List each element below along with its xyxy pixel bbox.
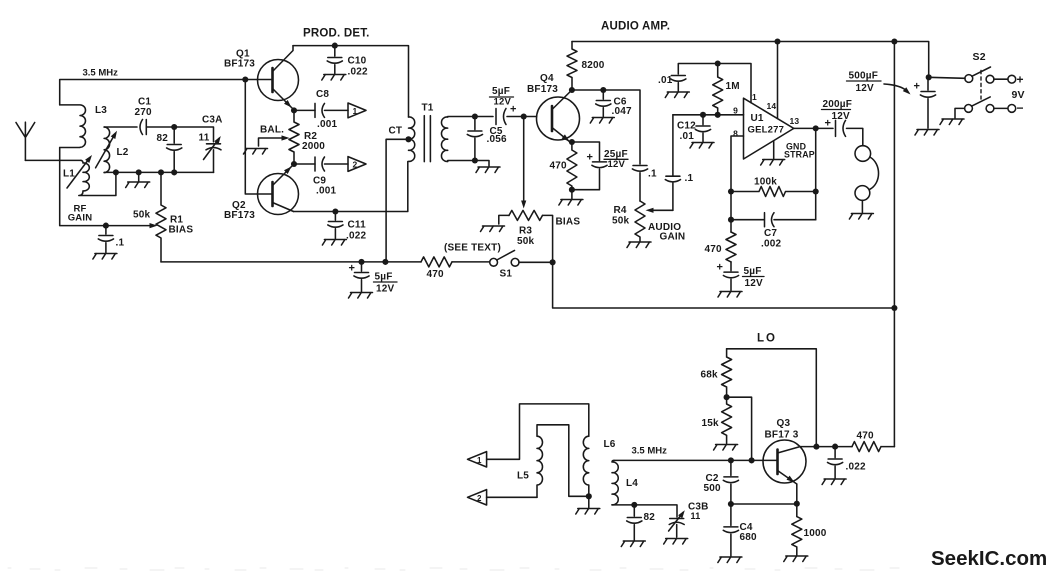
svg-text:5µF: 5µF — [492, 86, 510, 97]
capacitor C4 — [718, 504, 742, 563]
wire T1 secondary bottom — [448, 161, 475, 162]
output arrow 1 (LO) — [468, 452, 487, 467]
svg-text:9V: 9V — [1012, 89, 1025, 101]
node C2 bottom / emitter rail — [728, 501, 734, 507]
wire 3.5MHz node to Q1 base — [60, 80, 273, 105]
watermark SeekIC.com — [931, 547, 1047, 570]
wiper wire of R2 — [259, 138, 286, 146]
fraction bar (5uF 12V) — [490, 96, 514, 98]
wire tank bottom rail — [104, 171, 213, 173]
wire S2 lower pole to ground — [955, 108, 965, 118]
label R4 — [614, 205, 627, 216]
wire pin 8 down — [731, 136, 744, 232]
label 2000 (R2) — [302, 141, 325, 152]
svg-text:5µF: 5µF — [744, 266, 762, 277]
svg-text:+: + — [349, 263, 356, 275]
label L2 — [117, 147, 129, 158]
switch S1 contact circle — [511, 258, 519, 266]
switch S2 upper pole circle — [965, 75, 973, 83]
svg-text:C8: C8 — [316, 89, 329, 100]
switch S2 lower contact circle — [986, 105, 994, 113]
svg-text:50k: 50k — [133, 210, 151, 221]
wiper arrowhead of R1 — [150, 223, 158, 228]
plus (coupling cap) — [510, 104, 517, 116]
wire 470 to S1 — [452, 261, 490, 263]
capacitor C3A — [206, 144, 221, 173]
capacitor .1 (wiper side) — [665, 115, 680, 211]
resistor 1M — [713, 64, 723, 115]
svg-text:15k: 15k — [702, 418, 720, 429]
label C3A — [202, 115, 223, 126]
label AUDIO — [648, 222, 681, 233]
svg-text:50k: 50k — [612, 216, 630, 227]
capacitor .1 (RF gain) — [93, 226, 117, 259]
wiper of R4 — [650, 209, 673, 211]
svg-text:C10: C10 — [348, 56, 367, 67]
pin 9 — [733, 106, 738, 116]
wire arrow1 to L6 top — [487, 404, 589, 459]
label R1 — [170, 215, 183, 226]
node 82 bottom — [171, 169, 177, 175]
ground (S2) — [940, 119, 964, 125]
inductor L5 — [537, 425, 589, 498]
label 470 (Q4 emitter) — [550, 161, 568, 172]
svg-text:680: 680 — [740, 532, 758, 543]
capacitor 5uF (supply) — [349, 262, 373, 298]
ground (phones) — [849, 200, 873, 219]
capacitor C11 — [322, 212, 346, 246]
label BIAS (R1) — [169, 225, 194, 236]
label 11 (C3A value) — [199, 133, 210, 144]
arrowhead of C3A — [214, 136, 221, 144]
label C6 — [614, 97, 627, 108]
svg-text:500µF: 500µF — [849, 71, 879, 82]
svg-text:3.5 MHz: 3.5 MHz — [632, 446, 668, 457]
capacitor C7 — [731, 213, 816, 227]
capacitor 5uF (op-amp) — [718, 262, 742, 297]
label L1 — [63, 169, 75, 180]
ground (C5) — [475, 161, 500, 173]
label 470 (supply) — [427, 269, 445, 280]
label C11 — [348, 220, 367, 231]
label 680 (C4) — [740, 532, 758, 543]
svg-text:BIAS: BIAS — [556, 217, 581, 228]
label 12V (200uF) — [832, 111, 851, 122]
wire op-amp output — [794, 127, 833, 129]
svg-text:1: 1 — [353, 106, 358, 116]
svg-text:+: + — [717, 262, 724, 274]
svg-text:R3: R3 — [519, 226, 532, 237]
arrow of variable inductor L2 — [96, 134, 115, 168]
svg-text:BAL.: BAL. — [260, 125, 284, 136]
svg-text:U1: U1 — [751, 113, 764, 124]
svg-text:470: 470 — [857, 431, 875, 442]
transistor Q1 circle — [258, 60, 299, 101]
phone jack curve — [870, 157, 879, 190]
label C10 — [348, 56, 367, 67]
emitter arrowhead Q3 — [787, 476, 795, 483]
svg-text:200µF: 200µF — [823, 99, 853, 110]
pin 1 — [752, 92, 757, 102]
label 200uF — [823, 99, 853, 110]
svg-text:C11: C11 — [348, 220, 367, 231]
wire emitter rail — [731, 503, 797, 505]
node 68k/15k junction — [724, 394, 730, 400]
svg-text:T1: T1 — [422, 103, 434, 114]
wire arrow2 to L5 bottom — [487, 496, 537, 498]
transistor Q3 base bar — [776, 450, 779, 475]
inductor L3 — [60, 105, 86, 148]
svg-text:SeekIC.com: SeekIC.com — [931, 547, 1047, 570]
label C3B — [688, 502, 709, 513]
antenna — [16, 122, 35, 160]
wire C9 to output 2 — [325, 163, 349, 165]
output arrow 2 — [348, 157, 366, 172]
svg-text:L2: L2 — [117, 147, 129, 158]
svg-text:+: + — [1017, 73, 1024, 87]
plus (25uF) — [587, 152, 594, 164]
node 500uF top — [926, 74, 932, 80]
ground strap of U1 — [761, 141, 785, 165]
svg-text:PROD. DET.: PROD. DET. — [303, 28, 370, 40]
capacitor C3B — [664, 519, 688, 545]
emitter arrowhead Q1 — [284, 100, 292, 108]
label L6 — [604, 439, 616, 450]
label .1 (collector side) — [648, 169, 657, 180]
wire LO 3.5MHz rail — [614, 459, 778, 461]
svg-text:12V: 12V — [376, 284, 395, 295]
label STRAP — [784, 150, 815, 160]
pointer arrowhead (500uF) — [903, 87, 911, 94]
svg-text:C3A: C3A — [202, 115, 223, 126]
plus terminal — [1017, 73, 1024, 87]
label S2 — [973, 51, 986, 63]
capacitor C2 — [723, 460, 738, 504]
ground (R4) — [627, 242, 651, 248]
wire S1 to node — [519, 261, 553, 263]
wire Q1 base to Q2 base — [245, 80, 272, 195]
arrow of variable capacitor C3B — [669, 513, 683, 532]
wire S2 upper to terminal — [994, 78, 1008, 80]
wiper arrowhead of R3 — [521, 201, 526, 209]
svg-text:GAIN: GAIN — [68, 213, 93, 224]
scan noise bottom — [8, 568, 899, 570]
svg-text:12V: 12V — [745, 278, 764, 289]
node tank ground — [136, 169, 142, 175]
ground (L5/L6) — [576, 496, 600, 514]
wire T1 secondary top to 5uF — [448, 116, 493, 119]
node feedback 100k right — [813, 188, 819, 194]
svg-text:+: + — [914, 81, 921, 93]
node C11 top — [332, 208, 338, 214]
svg-text:+: + — [825, 118, 832, 130]
label C12 — [677, 121, 696, 132]
node emitter resistor bottom — [569, 187, 575, 193]
capacitor C5 — [467, 117, 482, 161]
label R2 — [304, 131, 317, 142]
svg-text:12V: 12V — [832, 111, 851, 122]
arrowhead of L1 — [85, 155, 92, 163]
label 25uF — [604, 149, 628, 160]
inductor L4 — [612, 460, 618, 504]
svg-text:.047: .047 — [612, 106, 633, 117]
transformer T1 core — [424, 116, 430, 162]
wire R3 right end — [543, 215, 553, 262]
transistor Q4 emitter — [552, 128, 572, 144]
label .001 (C8) — [317, 119, 338, 130]
label 100k — [754, 177, 777, 188]
wire PROD DET top rail — [293, 46, 409, 117]
switch S1 lever — [497, 250, 515, 260]
emitter arrowhead Q4 — [562, 134, 570, 141]
label .022 (C10) — [348, 67, 369, 78]
svg-text:R4: R4 — [614, 205, 627, 216]
label 50k (R1) — [133, 210, 151, 221]
svg-text:470: 470 — [427, 269, 445, 280]
wire tank top rail — [104, 126, 137, 128]
svg-text:L3: L3 — [95, 105, 107, 116]
plus (500uF) — [914, 81, 921, 93]
svg-text:AUDIO AMP.: AUDIO AMP. — [601, 21, 670, 33]
label 12V (coupling cap) — [494, 97, 512, 108]
node Q4 collector — [569, 87, 575, 93]
label C2 — [706, 473, 719, 484]
label 470 (op-amp) — [705, 244, 723, 255]
label GAIN (audio) — [660, 232, 686, 243]
svg-text:13: 13 — [790, 116, 800, 126]
capacitor C1 — [140, 120, 146, 135]
node 1M bottom — [715, 112, 721, 118]
wiper arrowhead of R4 — [646, 208, 654, 213]
resistor R2 2000 — [289, 110, 299, 164]
svg-text:.001: .001 — [317, 119, 338, 130]
label 500uF — [849, 71, 879, 82]
transistor Q1 base bar — [271, 68, 274, 92]
label Q1 — [236, 49, 250, 60]
svg-text:S1: S1 — [500, 269, 513, 280]
switch S2 lower pole circle — [965, 105, 973, 113]
label .01 (C12) — [680, 131, 695, 142]
node B+ vertical junction — [891, 305, 897, 311]
label (SEE TEXT) — [444, 243, 501, 254]
label S1 — [500, 269, 513, 280]
pin 13 — [790, 116, 800, 126]
label BAL. — [260, 125, 284, 136]
label GEL277 — [748, 125, 785, 136]
svg-text:BF173: BF173 — [527, 84, 558, 95]
label .1 (wiper side) — [685, 173, 694, 184]
pin 8 — [733, 129, 738, 139]
svg-text:270: 270 — [135, 107, 153, 118]
label Q4 — [540, 73, 554, 84]
arrowhead of L2 — [111, 131, 117, 139]
svg-text:3.5 MHz: 3.5 MHz — [83, 68, 119, 79]
capacitor C8 — [315, 103, 325, 117]
label 82 (LO) — [644, 512, 656, 523]
plus (5uF op-amp) — [717, 262, 724, 274]
capacitor C10 — [322, 46, 346, 80]
minus terminal — [1017, 101, 1024, 115]
svg-text:BIAS: BIAS — [169, 225, 194, 236]
svg-text:50k: 50k — [517, 236, 535, 247]
svg-text:500: 500 — [704, 483, 722, 494]
label T1 — [422, 103, 434, 114]
ground (tank) — [126, 172, 150, 187]
pin 14 — [767, 101, 777, 111]
wire Q1 emitter to C8 — [294, 109, 315, 111]
capacitor .01 — [665, 76, 689, 98]
label .001 (C9) — [316, 186, 337, 197]
label CT — [389, 126, 403, 137]
inductor L2 — [104, 127, 110, 173]
svg-text:12V: 12V — [494, 97, 512, 108]
svg-text:(SEE TEXT): (SEE TEXT) — [444, 243, 501, 254]
svg-text:8200: 8200 — [582, 60, 605, 71]
label 12V (25uF) — [608, 159, 626, 170]
label 11 (C3B) — [691, 511, 701, 521]
arrow of variable capacitor C3A — [204, 139, 220, 160]
node Q1 emitter — [291, 107, 297, 113]
node C10 top — [332, 43, 338, 49]
capacitor 5uF coupling — [496, 109, 506, 125]
node 5uF supply cap — [358, 259, 364, 265]
label GAIN (RF GAIN) — [68, 213, 93, 224]
ground (15k) — [714, 445, 738, 451]
node 82/C1 junction — [171, 124, 177, 130]
node 100k left — [728, 188, 734, 194]
transistor Q3 collector — [778, 447, 817, 453]
label .047 (C6) — [612, 106, 633, 117]
wire Q3 emitter down — [796, 484, 798, 504]
svg-text:1M: 1M — [726, 81, 740, 92]
op-amp U1 triangle — [744, 98, 794, 159]
svg-text:.002: .002 — [761, 239, 782, 250]
label C7 — [764, 228, 777, 239]
node output — [813, 125, 819, 131]
label .022 (LO) — [846, 462, 867, 473]
svg-text:.056: .056 — [487, 134, 508, 145]
label 1000 (Q3 emitter) — [804, 528, 827, 539]
svg-text:12V: 12V — [608, 159, 626, 170]
resistor 470 (op-amp) — [726, 232, 736, 262]
svg-text:82: 82 — [644, 512, 656, 523]
transistor Q3 circle — [763, 440, 806, 483]
label 5uF (coupling) — [492, 86, 510, 97]
wire PROD DET bottom rail — [294, 162, 408, 212]
node C12 top — [700, 112, 706, 118]
resistor R4 50k — [635, 201, 645, 241]
node Q1 base junction — [242, 76, 248, 82]
plus (200uF) — [825, 118, 832, 130]
wire CT to lower rail — [386, 139, 408, 262]
label C8 — [316, 89, 329, 100]
label Q2 — [232, 200, 246, 211]
svg-text:2000: 2000 — [302, 141, 325, 152]
inductor L1 — [79, 160, 116, 195]
svg-text:GEL277: GEL277 — [748, 125, 785, 136]
label 50k (R4) — [612, 216, 630, 227]
node C5 top — [472, 113, 478, 119]
label 5uF (supply) — [375, 272, 393, 283]
node L1 return — [113, 169, 119, 175]
wire lower rail to LO — [553, 262, 895, 308]
transistor Q2 base bar — [271, 182, 274, 206]
node Q3 collector — [813, 444, 819, 450]
label Q3 — [777, 418, 791, 429]
label R3 — [519, 226, 532, 237]
label L3 — [95, 105, 107, 116]
transistor Q4 base bar — [551, 106, 554, 131]
capacitor 82pF (tank) — [167, 127, 182, 172]
wire Q4 base to R3 wiper — [523, 117, 525, 202]
emitter arrowhead Q2 — [284, 167, 292, 175]
wiper arrowhead of R2 — [282, 135, 290, 140]
label 3.5MHz (LO) — [632, 446, 668, 457]
inductor L6 — [583, 436, 589, 496]
node C7 left — [728, 217, 734, 223]
svg-text:.1: .1 — [648, 169, 657, 180]
svg-text:8: 8 — [733, 129, 738, 139]
node Q4 emitter — [569, 139, 575, 145]
label 1M — [726, 81, 740, 92]
wire C1 to C3A — [146, 127, 213, 142]
resistor R1 50k — [156, 172, 166, 262]
wire pin9 input — [673, 114, 744, 116]
label .022 (C11) — [346, 231, 367, 242]
transistor Q2 collector — [273, 203, 294, 212]
fraction bar (5uF op-amp) — [743, 276, 765, 278]
label 12V (5uF op-amp) — [745, 278, 764, 289]
svg-text:5µF: 5µF — [375, 272, 393, 283]
fraction bar (5uF supply) — [374, 281, 398, 283]
switch S1 pole circle — [490, 258, 498, 266]
fraction bar (25uF 12V) — [604, 158, 628, 160]
arrowhead of C3B — [678, 510, 685, 518]
svg-text:12V: 12V — [856, 83, 875, 94]
svg-text:+: + — [510, 104, 517, 116]
label 15k — [702, 418, 720, 429]
label C5 — [490, 126, 503, 137]
resistor R3 50k — [509, 210, 543, 220]
transistor Q2 emitter (up) — [273, 165, 294, 186]
transformer T1 primary — [409, 117, 415, 162]
svg-text:L1: L1 — [63, 169, 75, 180]
wire C8 to output 1 — [325, 109, 349, 111]
label 1 (LO arrow) — [477, 456, 482, 465]
node C6 top — [600, 87, 606, 93]
svg-text:Q4: Q4 — [540, 73, 554, 84]
svg-text:L5: L5 — [517, 471, 529, 482]
svg-text:1: 1 — [752, 92, 757, 102]
capacitor C12 — [690, 115, 714, 148]
label 5uF (op-amp) — [744, 266, 762, 277]
title LO — [757, 333, 777, 345]
wire 5uF to Q4 base — [507, 116, 537, 118]
label C9 — [313, 176, 326, 187]
resistor 15k — [722, 397, 732, 443]
label 12V (500uF) — [856, 83, 875, 94]
node Q3 base — [749, 457, 755, 463]
switch S2 lower lever — [972, 97, 991, 106]
label 270 (C1 value) — [135, 107, 153, 118]
node R1 top — [158, 169, 164, 175]
label 1 (output arrow) — [353, 106, 358, 116]
node .1 cap RF gain — [103, 223, 109, 229]
switch S2 upper lever — [972, 67, 991, 76]
label 12V (5uF supply) — [376, 284, 395, 295]
ground (R3) — [481, 226, 505, 232]
label .01 — [658, 75, 673, 86]
